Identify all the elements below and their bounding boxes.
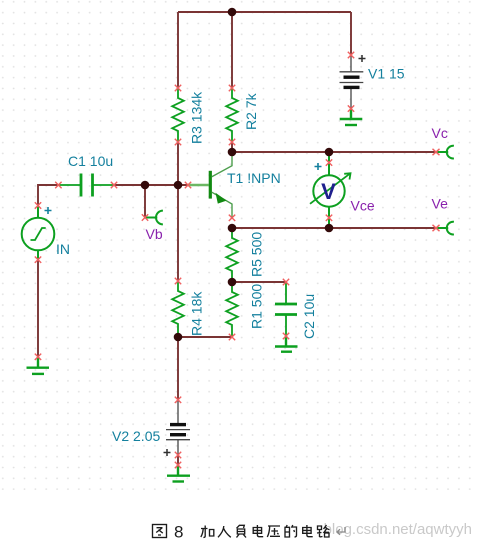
capacitor C2 label (301, 294, 317, 339)
ground under V1 (340, 109, 363, 125)
pin voltmeter top (326, 159, 332, 165)
pin R3 top (175, 85, 181, 91)
terminal Vc label (432, 125, 448, 141)
char ru (enter) (218, 526, 231, 537)
pin R2 top (229, 85, 235, 91)
pin IN ground (35, 354, 41, 360)
svg-text:Vce: Vce (351, 198, 375, 214)
node C1-Vb tee (141, 181, 150, 190)
svg-text:C1 10u: C1 10u (68, 153, 113, 169)
source IN (22, 205, 55, 260)
wire IN to C1 (38, 185, 58, 205)
svg-text:R5 500: R5 500 (249, 232, 265, 277)
pin V2 ground (175, 462, 181, 468)
wire top horizontal (178, 11, 351, 13)
node voltmeter bottom tee (325, 224, 334, 233)
resistor R3 label (189, 91, 205, 144)
battery V2 (166, 400, 190, 455)
node collector tee (228, 148, 237, 157)
pin Vb probe (142, 214, 148, 220)
wire R5 node to C2 (232, 281, 286, 283)
pin V2 top (175, 397, 181, 403)
voltmeter Vce (310, 152, 351, 228)
char jia (add) (201, 526, 214, 538)
ground under IN (27, 357, 50, 374)
svg-text:V2 2.05: V2 2.05 (112, 428, 160, 444)
svg-text:R1 500: R1 500 (249, 284, 265, 329)
svg-text:R3 134k: R3 134k (189, 91, 205, 144)
wire collector node to Vc terminal (232, 151, 437, 153)
capacitor C1 label (68, 153, 113, 169)
pin emitter (229, 215, 235, 221)
svg-text:IN: IN (56, 241, 70, 257)
wire left rail between base node and R4 (177, 185, 179, 281)
svg-text:R4 18k: R4 18k (189, 291, 205, 336)
char tu (picture) (153, 525, 167, 538)
wire left rail to V2 (177, 337, 179, 400)
terminal Ve label (432, 196, 449, 212)
return arrow (337, 527, 345, 535)
pin voltmeter bottom (326, 215, 332, 221)
wire left rail between R3 and base node (177, 142, 179, 185)
wire emitter node to Ve terminal (232, 227, 437, 229)
wire mid rail upper (231, 12, 233, 88)
svg-text:Vb: Vb (146, 226, 163, 242)
terminal Ve (437, 222, 454, 235)
svg-text:C2 10u: C2 10u (301, 294, 317, 339)
char 8 (174, 523, 183, 542)
char dian 2 (303, 525, 313, 537)
node R4 bottom tee (174, 333, 183, 342)
resistor R2 label (243, 92, 259, 130)
pin R1 bottom (229, 334, 235, 340)
source IN label (56, 241, 70, 257)
node base tee (174, 181, 183, 190)
resistor R1 label (249, 284, 265, 329)
char de (of) (285, 525, 297, 537)
voltmeter Vce label (351, 198, 375, 214)
battery V1 (340, 55, 364, 108)
pin C2 bottom (283, 333, 289, 339)
pin IN bottom (35, 257, 41, 263)
char fu (negative) (237, 525, 247, 538)
pin Vc terminal (433, 149, 440, 155)
caption figure 8 text (153, 523, 346, 542)
transistor T1 label (227, 170, 281, 186)
voltmeter Vce V letter (321, 179, 336, 204)
wire V2 to ground (177, 455, 179, 465)
pin V1 bottom (348, 105, 354, 111)
pin C2 top (283, 279, 289, 285)
wire mid rail between R2 and collector node (231, 142, 233, 152)
pin C1 left (55, 182, 61, 188)
pin V1 top (348, 52, 354, 58)
source IN plus sign (45, 207, 52, 214)
wire IN bottom to ground (37, 260, 39, 357)
terminal Vc (437, 146, 454, 159)
svg-text:V1 15: V1 15 (368, 66, 405, 82)
wire Vb probe drop (144, 185, 146, 217)
wire R4 bottom to R1 bottom (178, 336, 232, 338)
transistor T1 base wire (188, 184, 209, 186)
ground under C2 (275, 336, 298, 352)
svg-text:blog.csdn.net/aqwtyyh: blog.csdn.net/aqwtyyh (324, 521, 472, 538)
resistor R2 (226, 88, 238, 142)
svg-text:R2 7k: R2 7k (243, 92, 259, 130)
char dian (electric) (253, 525, 263, 537)
capacitor C2 (275, 282, 297, 336)
pin V2 bottom (175, 452, 181, 458)
battery V2 label (112, 428, 160, 444)
resistor R4 label (189, 291, 205, 336)
pin C1 right (111, 182, 117, 188)
wire C1 to base node (114, 184, 188, 186)
battery V1 plus sign (359, 55, 366, 62)
battery V2 plus sign (164, 449, 171, 456)
node emitter tee (228, 224, 237, 233)
resistor R5 label (249, 232, 265, 277)
battery V1 label (368, 66, 405, 82)
pin R4 top (175, 278, 181, 284)
pin IN top (35, 202, 41, 208)
voltmeter plus sign (315, 163, 322, 170)
pin Ve terminal (433, 225, 440, 231)
char lu (road) (317, 525, 330, 537)
svg-text:Vc: Vc (432, 125, 448, 141)
node R5-R1-C2 tee (228, 278, 237, 287)
svg-text:T1 !NPN: T1 !NPN (227, 170, 281, 186)
transistor T1 (210, 152, 232, 218)
capacitor C1 (58, 174, 114, 197)
resistor R4 (172, 281, 184, 337)
svg-text:V: V (321, 179, 336, 204)
node voltmeter top tee (325, 148, 334, 157)
ground under V2 (167, 465, 190, 482)
svg-text:8: 8 (174, 523, 183, 542)
pin R3 bottom (175, 139, 181, 145)
probe Vb (145, 211, 163, 225)
watermark csdn (324, 521, 472, 538)
svg-text:Ve: Ve (432, 196, 449, 212)
char ya (pressure) (267, 526, 280, 537)
pin R2 bottom (229, 139, 235, 145)
pin base (185, 182, 191, 188)
wire left rail upper (177, 12, 179, 88)
resistor R3 (172, 88, 184, 142)
resistor R5 (226, 228, 238, 282)
probe Vb label (146, 226, 163, 242)
wire right rail to V1 (350, 12, 352, 55)
node top tee (228, 8, 237, 17)
resistor R1 (226, 282, 238, 337)
